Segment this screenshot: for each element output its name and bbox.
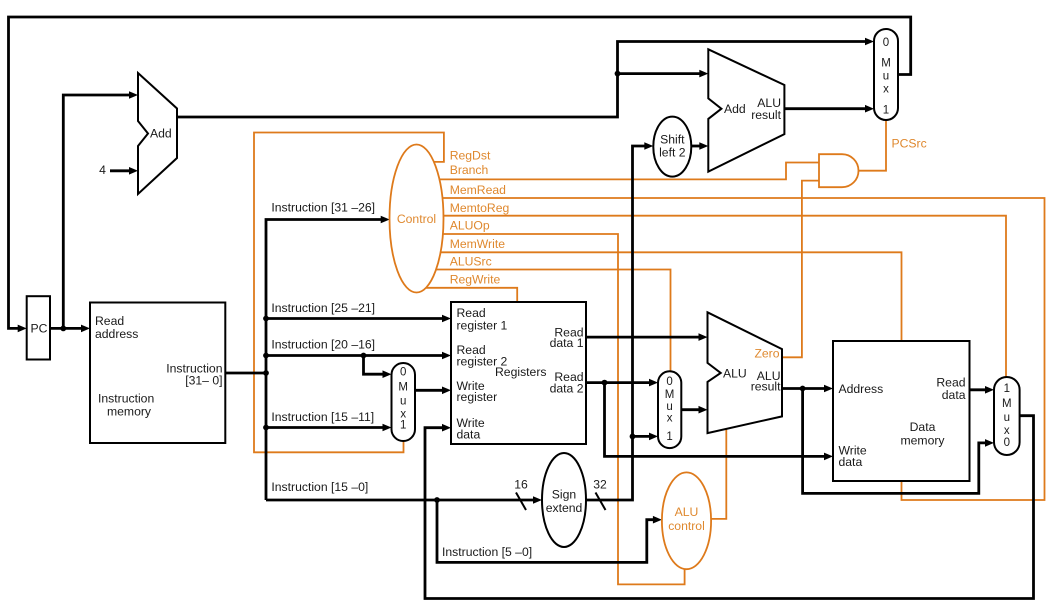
wire sign extend output to shift left 2 and ALU mux input 1 — [581, 146, 650, 500]
svg-text:M: M — [398, 382, 408, 394]
junction ALU result — [800, 386, 806, 392]
svg-text:RegDst: RegDst — [450, 148, 491, 162]
wire ALU result to data memory address and writeback mux bypass — [777, 389, 986, 494]
wire constant 4 into Add — [110, 169, 130, 172]
wire instruction bus from instruction memory — [220, 220, 382, 501]
arrowhead into writeback mux input 0 — [985, 439, 994, 447]
svg-text:[31– 0]: [31– 0] — [185, 373, 222, 387]
svg-text:data 2: data 2 — [550, 382, 584, 396]
svg-text:MemWrite: MemWrite — [450, 237, 506, 251]
wire Zero (orange) ALU zero to AND gate — [777, 181, 825, 358]
svg-text:0: 0 — [400, 367, 406, 379]
shift left 2 oval — [653, 117, 691, 177]
svg-text:data: data — [942, 388, 966, 402]
mux PC source (0 Mux 1) — [874, 29, 898, 120]
arrowhead into ALU bottom input — [699, 406, 708, 414]
arrowhead into PC — [18, 325, 27, 333]
junction instruction bus input — [263, 370, 269, 376]
svg-text:Instruction [20 –16]: Instruction [20 –16] — [271, 338, 375, 352]
svg-text:register 1: register 1 — [457, 319, 508, 333]
wire ALUSrc (orange) control to ALU mux select — [420, 270, 671, 445]
AND gate branch — [819, 154, 859, 187]
wire RegDst (orange) control to write-register mux — [254, 133, 444, 453]
junction instruction bus 25-21 — [263, 316, 269, 322]
wire MemWrite (orange) control to data memory top — [420, 252, 902, 346]
arrowhead into ALU top input — [699, 333, 708, 341]
junction read data 2 — [602, 380, 608, 386]
svg-text:left 2: left 2 — [659, 146, 686, 160]
svg-text:4: 4 — [99, 163, 106, 177]
svg-text:Zero: Zero — [754, 347, 779, 361]
wire Instruction [5-0] to ALU control — [437, 500, 654, 562]
control unit oval — [390, 145, 444, 293]
svg-text:x: x — [400, 409, 406, 421]
wire write register mux output to registers — [410, 389, 443, 392]
svg-text:data 1: data 1 — [550, 336, 584, 350]
adder Add ALU result (branch) — [708, 49, 784, 171]
svg-text:PCSrc: PCSrc — [892, 136, 927, 150]
wire data memory read data to writeback mux — [964, 388, 986, 391]
ALU control oval — [662, 472, 711, 569]
arrowhead into data memory address — [824, 385, 833, 393]
data memory box — [833, 341, 970, 481]
wire ALU mux output to ALU — [676, 408, 700, 411]
arrowhead into read address — [81, 325, 90, 333]
svg-text:MemRead: MemRead — [450, 183, 506, 197]
arrowhead into PC mux input 1 — [865, 105, 874, 113]
wire MemtoReg (orange) control to writeback mux select — [420, 216, 1006, 450]
arrowhead into ALU control — [653, 516, 662, 524]
arrowhead into sign extend — [533, 496, 542, 504]
junction PC+4 to branch adder — [615, 71, 621, 77]
svg-text:Read: Read — [95, 314, 124, 328]
junction instruction bus 15-11 — [263, 425, 269, 431]
junction instruction 15-0 to 5-0 — [434, 497, 440, 503]
slash 32-bit width mark — [596, 493, 606, 511]
svg-text:result: result — [751, 108, 781, 122]
svg-text:Data: Data — [910, 420, 936, 434]
wire RegWrite (orange) control to registers — [420, 288, 517, 306]
arrowhead into write data registers — [442, 424, 451, 432]
sign extend oval — [542, 453, 586, 547]
svg-text:1: 1 — [883, 105, 889, 117]
svg-text:Instruction [15 –0]: Instruction [15 –0] — [271, 480, 368, 494]
svg-text:32: 32 — [593, 477, 607, 491]
svg-text:u: u — [400, 395, 406, 407]
svg-text:data: data — [457, 428, 481, 442]
register PC — [27, 296, 50, 359]
svg-text:data: data — [839, 455, 863, 469]
wire ALU control output (orange) to ALU — [700, 424, 726, 519]
svg-text:Control: Control — [397, 212, 436, 226]
svg-text:ALUOp: ALUOp — [450, 219, 490, 233]
svg-text:Registers: Registers — [495, 365, 546, 379]
arrowhead into write register — [442, 387, 451, 395]
svg-text:ALU: ALU — [723, 366, 747, 380]
svg-text:PC: PC — [31, 322, 48, 336]
arrowhead into read register 1 — [442, 315, 451, 323]
svg-text:Add: Add — [150, 127, 172, 141]
svg-text:M: M — [881, 58, 891, 70]
svg-text:M: M — [1002, 398, 1012, 410]
svg-text:0: 0 — [883, 37, 889, 49]
svg-text:control: control — [668, 519, 705, 533]
svg-text:u: u — [883, 71, 889, 83]
wire Instruction [20-16] to read register 2 and mux — [266, 356, 443, 375]
wire Instruction [25-21] to read register 1 — [266, 317, 443, 320]
wire writeback mux output to registers write data — [425, 416, 1034, 599]
arrowhead into data memory write data — [824, 453, 833, 461]
arrowhead into Add top input — [129, 91, 138, 99]
svg-text:u: u — [666, 401, 672, 413]
svg-text:Instruction [15 –11]: Instruction [15 –11] — [271, 410, 374, 424]
svg-text:memory: memory — [107, 405, 152, 419]
svg-text:1: 1 — [1004, 383, 1010, 395]
svg-text:0: 0 — [666, 376, 672, 388]
wire read data 2 to ALU mux and data memory write data — [581, 383, 825, 457]
svg-text:ALUSrc: ALUSrc — [450, 255, 492, 269]
svg-text:Instruction [31 –26]: Instruction [31 –26] — [271, 201, 375, 215]
wire branch Add result to PC mux input 1 — [779, 107, 866, 110]
arrowhead into writeback mux input 1 — [985, 386, 994, 394]
svg-text:M: M — [665, 389, 675, 401]
svg-text:memory: memory — [900, 434, 945, 448]
wire PC feedback loop from PC mux around top to PC — [9, 17, 911, 328]
svg-text:Instruction [25 –21]: Instruction [25 –21] — [271, 301, 375, 315]
svg-text:result: result — [751, 380, 781, 394]
junction sign extend to ALU mux — [630, 434, 636, 440]
arrowhead into read register 2 — [442, 352, 451, 360]
svg-text:register: register — [457, 390, 498, 404]
wire Branch (orange) control to AND gate — [420, 163, 825, 180]
adder Add (PC+4) — [138, 73, 177, 194]
svg-text:Add: Add — [724, 102, 746, 116]
arrowhead 4 into Add — [129, 167, 138, 175]
junction instruction bus 20-16 — [263, 353, 269, 359]
wire PC+4 from Add to PC mux and branch Add — [172, 42, 866, 118]
arrowhead into write register mux input 1 — [383, 424, 392, 432]
wire ALUOp (orange) control to ALU control — [420, 234, 685, 584]
instruction memory box — [90, 303, 225, 444]
junction PC output — [60, 326, 66, 332]
wire Instruction [15-0] to sign extend — [266, 499, 534, 502]
svg-text:Instruction: Instruction — [98, 392, 154, 406]
svg-text:x: x — [883, 84, 889, 96]
arrowhead into ALU mux input 0 — [649, 379, 658, 387]
svg-text:1: 1 — [666, 431, 672, 443]
svg-text:x: x — [667, 413, 673, 425]
svg-text:Branch: Branch — [450, 163, 489, 177]
wire MemRead (orange) control to data memory bottom — [420, 198, 1045, 500]
wire PCSrc (orange) AND gate to PC mux select — [852, 115, 886, 171]
svg-text:Sign: Sign — [552, 487, 576, 501]
svg-text:1: 1 — [400, 420, 406, 432]
svg-text:Address: Address — [839, 382, 884, 396]
wire Instruction [15-11] to write register mux — [266, 426, 384, 429]
svg-text:0: 0 — [1004, 437, 1010, 449]
wire PC output to instruction memory and up to Add — [45, 95, 130, 328]
svg-text:x: x — [1004, 425, 1010, 437]
mux ALU source (0 Mux 1) — [658, 371, 681, 448]
svg-text:ALU: ALU — [675, 505, 699, 519]
arrowhead into PC mux input 0 — [865, 38, 874, 46]
svg-text:extend: extend — [546, 501, 583, 515]
arrowhead into write register mux input 0 — [383, 370, 392, 378]
arrowhead into shift left 2 — [644, 142, 653, 150]
svg-text:address: address — [95, 327, 138, 341]
arrowhead into branch Add bottom — [699, 142, 708, 150]
svg-text:Shift: Shift — [660, 132, 685, 146]
arrowhead into ALU mux input 1 — [649, 433, 658, 441]
mux write register (0 Mux 1) — [392, 363, 416, 441]
svg-text:u: u — [1004, 412, 1010, 424]
svg-text:16: 16 — [514, 477, 528, 491]
wire shift left 2 output to branch Add — [686, 145, 700, 148]
arrowhead into Control — [381, 216, 390, 224]
svg-text:Instruction [5 –0]: Instruction [5 –0] — [442, 545, 532, 559]
ALU main — [708, 312, 783, 433]
svg-text:RegWrite: RegWrite — [450, 273, 501, 287]
junction rt field to write register mux — [361, 353, 367, 359]
svg-text:MemtoReg: MemtoReg — [450, 201, 510, 215]
arrowhead into branch Add top — [699, 70, 708, 78]
registers box — [451, 302, 586, 444]
mux writeback (1 Mux 0) — [994, 377, 1020, 455]
slash 16-bit width mark — [516, 493, 526, 511]
wire read data 1 to ALU — [581, 336, 700, 339]
